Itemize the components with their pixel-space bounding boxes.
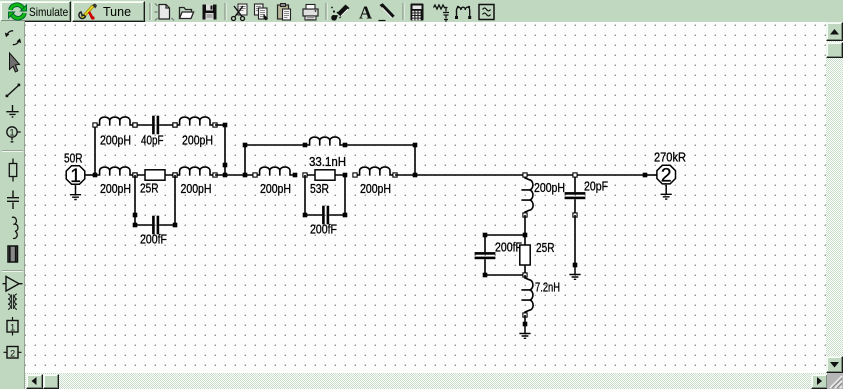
inductor L4 200pH (main line) xyxy=(173,167,217,177)
wire drop left of C2 xyxy=(134,175,136,225)
capacitor C3 200fF (below R2) xyxy=(303,206,348,225)
inductor L8 200pH (shunt, vertical) xyxy=(521,173,533,217)
icon: erase xyxy=(331,5,349,21)
separator xyxy=(2,151,23,152)
label R2 53R xyxy=(310,182,329,196)
capacitor C2 200fF (below R1) xyxy=(133,216,178,235)
tool: select pointer xyxy=(10,53,20,72)
wire node A up to top branch xyxy=(94,126,96,175)
svg-text:200fF: 200fF xyxy=(310,222,337,236)
tool: trx line xyxy=(8,246,18,262)
wire L5 to corner xyxy=(345,144,415,146)
ground for C5 xyxy=(569,265,580,279)
svg-text:A: A xyxy=(359,3,372,23)
toolbar separator xyxy=(326,3,327,20)
svg-text:2: 2 xyxy=(10,348,15,358)
tool: port xyxy=(7,127,21,142)
label L9 7.2nH xyxy=(535,281,560,295)
junction (485,275) xyxy=(483,273,488,278)
inductor L5 33.1nH (bridge) xyxy=(303,137,348,147)
junction (245,145) xyxy=(243,143,248,148)
top toolbar background xyxy=(0,0,843,22)
icon: save xyxy=(203,5,217,20)
Tune button xyxy=(72,1,145,22)
inductor L7 200pH (main line) xyxy=(353,167,397,177)
label L7 200pH xyxy=(360,182,391,196)
icon: cut xyxy=(232,4,248,21)
wire-end marker (225,165) xyxy=(223,163,228,168)
tool: ground xyxy=(6,105,18,117)
port P2 (270kR) xyxy=(657,165,676,187)
wire drop right of C3 xyxy=(344,175,346,215)
label L6 200pH xyxy=(260,182,291,196)
wire top branch to corner xyxy=(215,124,225,126)
svg-text:200pH: 200pH xyxy=(182,133,213,147)
svg-text:25R: 25R xyxy=(536,241,555,255)
left tool palette xyxy=(0,21,25,389)
wire L9 to ground xyxy=(524,315,526,324)
svg-text:20pF: 20pF xyxy=(584,180,608,194)
svg-text:1: 1 xyxy=(70,165,81,187)
svg-text:2: 2 xyxy=(661,165,672,187)
junction node B (525,235) xyxy=(523,233,528,238)
tool: resistor xyxy=(9,159,16,182)
junction (225,175) xyxy=(223,173,228,178)
svg-text:33.1nH: 33.1nH xyxy=(309,155,346,169)
wire port 2 lead xyxy=(645,174,657,176)
label L8 200pH xyxy=(534,181,565,195)
label L5 33.1nH xyxy=(309,155,346,169)
junction (295,175) xyxy=(293,173,298,178)
label R3 25R xyxy=(536,241,555,255)
tool: 2-port xyxy=(4,347,22,359)
wire stub up at 245 xyxy=(244,145,246,175)
wire-end marker (135,215) xyxy=(133,213,138,218)
icon: transformer xyxy=(455,6,471,19)
toolbar icons xyxy=(0,0,843,22)
svg-text:270kR: 270kR xyxy=(654,151,686,165)
wire node B left xyxy=(485,234,525,236)
tool: capacitor xyxy=(7,191,19,210)
toolbar separator xyxy=(403,3,404,20)
junction (485,235) xyxy=(483,233,488,238)
svg-text:200fF: 200fF xyxy=(140,233,167,247)
horizontal scrollbar xyxy=(25,373,827,389)
wire corner down to main line xyxy=(224,125,226,175)
tool: amplifier xyxy=(3,277,23,292)
capacitor C4 200fF (shunt) xyxy=(475,235,496,275)
label R1 25R xyxy=(140,182,159,196)
svg-text:25R: 25R xyxy=(140,182,159,196)
label C1 40pF xyxy=(141,133,164,147)
inductor L2 200pH (top-right) xyxy=(173,117,217,127)
label L2 200pH xyxy=(182,133,213,147)
icon: open xyxy=(180,8,194,19)
svg-text:200pH: 200pH xyxy=(260,182,291,196)
capacitor C5 20pF (shunt, vertical) xyxy=(565,173,586,217)
svg-text:200pH: 200pH xyxy=(534,181,565,195)
wire to L5 xyxy=(245,144,305,146)
wire main line between sections xyxy=(215,174,255,176)
wire drop left of C3 xyxy=(304,175,306,215)
label C3 200fF xyxy=(310,222,337,236)
icon: text xyxy=(359,3,372,23)
label 50R xyxy=(64,152,83,166)
tool: 1-port xyxy=(7,317,18,336)
svg-text:200pH: 200pH xyxy=(100,182,131,196)
icon: calculator xyxy=(411,4,424,21)
icon: new file xyxy=(155,4,175,21)
inductor L1 200pH (top-left) xyxy=(93,117,137,127)
tool: transformer xyxy=(8,294,17,309)
wire L8 to node B xyxy=(524,215,526,235)
port P1 (50R) xyxy=(66,165,85,187)
ground for port P2 xyxy=(661,185,672,199)
toolbar separator xyxy=(150,3,151,20)
capacitor C1 40pF (top) xyxy=(133,116,177,135)
icon: paste xyxy=(278,4,291,21)
icon: copy xyxy=(255,4,269,21)
svg-text:200pH: 200pH xyxy=(181,182,212,196)
wire main line to port 2 xyxy=(395,174,645,176)
inductor L9 7.2nH (shunt, vertical) xyxy=(521,275,533,317)
junction node A (95,175) xyxy=(93,173,98,178)
icon: lc network xyxy=(434,5,450,21)
svg-text:200pH: 200pH xyxy=(360,182,391,196)
junction (415,175) xyxy=(413,173,418,178)
Simulate button xyxy=(0,1,71,22)
wire port1 to node A xyxy=(86,174,95,176)
wire corner down at 415 xyxy=(414,145,416,175)
vertical scrollbar xyxy=(826,22,843,373)
wire drop right of C2 xyxy=(174,175,176,225)
toolbar separator xyxy=(225,3,226,20)
svg-text:200fF: 200fF xyxy=(495,241,522,255)
label L3 200pH xyxy=(100,182,131,196)
junction (645,175) xyxy=(643,173,648,178)
svg-text:1: 1 xyxy=(9,128,14,139)
label L4 200pH xyxy=(181,182,212,196)
svg-text:7.2nH: 7.2nH xyxy=(535,281,560,295)
wire C5 to ground xyxy=(574,215,576,265)
label C4 200fF xyxy=(495,241,522,255)
separator xyxy=(2,271,23,272)
svg-text:1: 1 xyxy=(10,322,15,332)
junction (225,125) xyxy=(223,123,228,128)
svg-text:40pF: 40pF xyxy=(141,133,164,147)
junction (415,145) xyxy=(413,143,418,148)
label 270kR xyxy=(654,151,686,165)
ground for port P1 xyxy=(70,185,81,199)
tool: rotate xyxy=(5,31,21,45)
resize grip xyxy=(827,373,843,389)
icon: print xyxy=(303,5,318,21)
label C5 20pF xyxy=(584,180,608,194)
svg-text:50R: 50R xyxy=(64,152,83,166)
wire-end marker (525,324) xyxy=(523,322,528,327)
Tune icon (tools) xyxy=(76,2,102,21)
Simulate icon (green arrows) xyxy=(6,2,29,21)
wire-end marker (575,265) xyxy=(573,263,578,268)
icon: pencil xyxy=(379,3,395,20)
svg-text:53R: 53R xyxy=(310,182,329,196)
resistor R2 53R xyxy=(303,170,345,180)
junction (345,175) xyxy=(343,173,348,178)
svg-text:200pH: 200pH xyxy=(100,133,131,147)
resistor R1 25R xyxy=(133,170,177,180)
inductor L3 200pH (main line) xyxy=(95,167,137,177)
junction (245,175) xyxy=(243,173,248,178)
icon: s-parameter block xyxy=(479,5,494,20)
tool: inductor xyxy=(12,217,18,238)
inductor L6 200pH (main line) xyxy=(253,167,295,177)
ground for L9 xyxy=(519,324,530,338)
resistor R3 25R (shunt, vertical) xyxy=(520,235,530,277)
wire bottom of C4 to R3 xyxy=(485,274,525,276)
label L1 200pH xyxy=(100,133,131,147)
label C2 200fF xyxy=(140,233,167,247)
tool: draw wire xyxy=(6,84,21,98)
